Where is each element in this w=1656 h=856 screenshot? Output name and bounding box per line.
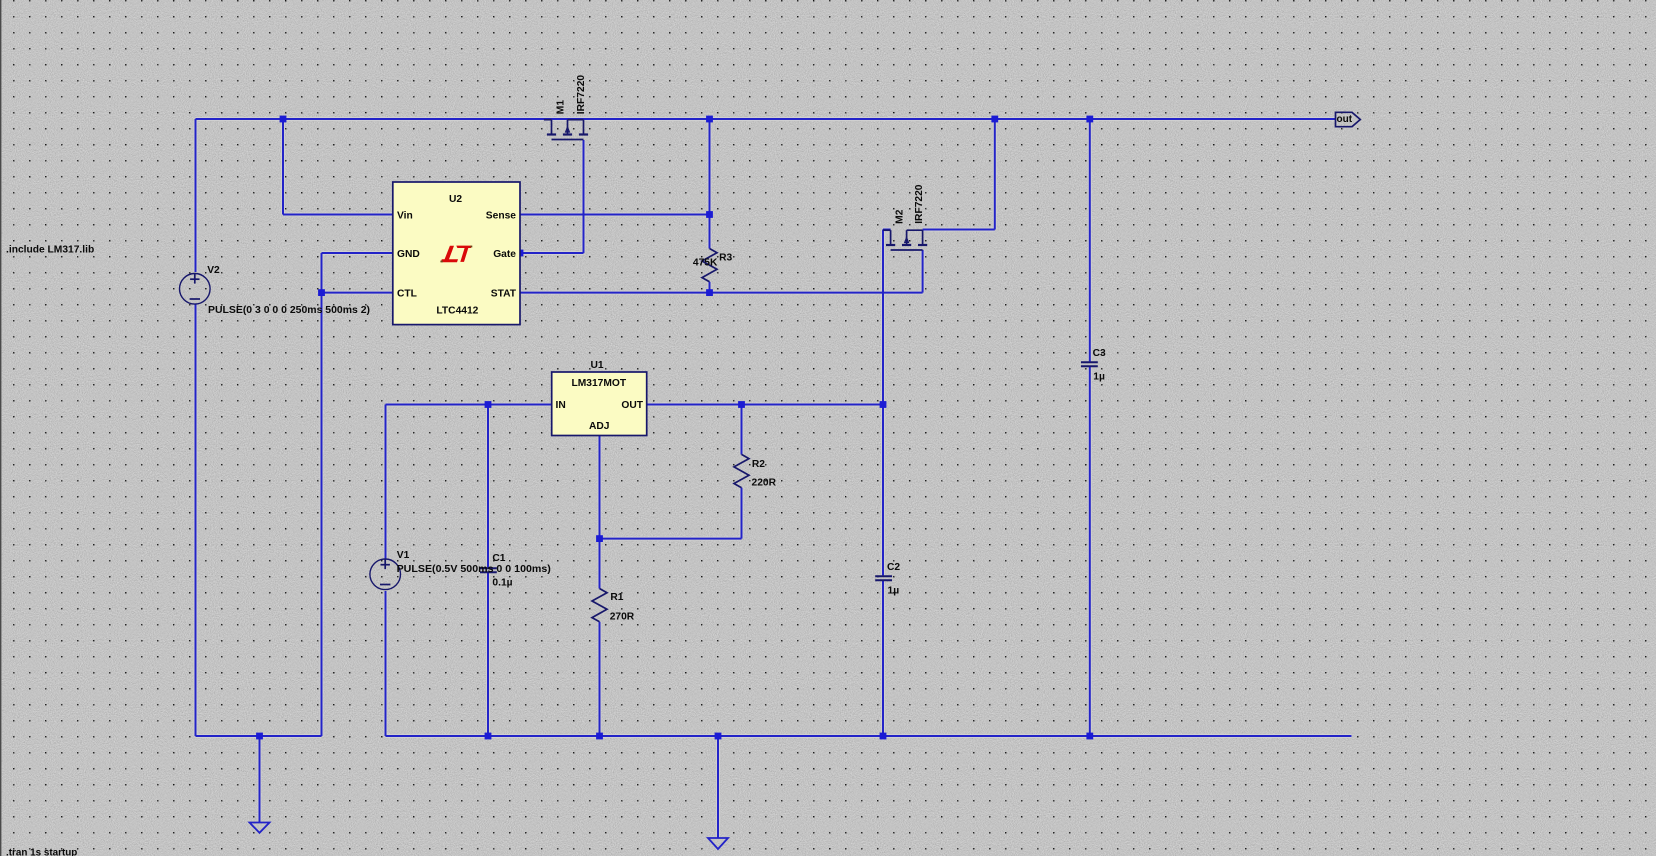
- svg-text:CTL: CTL: [397, 288, 417, 299]
- svg-text:Sense: Sense: [486, 211, 516, 222]
- svg-text:IN: IN: [556, 400, 566, 411]
- svg-text:ADJ: ADJ: [589, 421, 610, 432]
- svg-text:PULSE(0.5V 500ms 0 0 100ms): PULSE(0.5V 500ms 0 0 100ms): [397, 564, 551, 575]
- svg-text:Vin: Vin: [397, 211, 413, 222]
- svg-text:IRF7220: IRF7220: [914, 184, 925, 224]
- svg-text:.tran 1s startup: .tran 1s startup: [6, 847, 77, 856]
- svg-text:.include LM317.lib: .include LM317.lib: [6, 245, 94, 256]
- svg-text:OUT: OUT: [621, 400, 643, 411]
- svg-text:R3: R3: [719, 252, 732, 263]
- svg-text:U2: U2: [449, 194, 462, 205]
- svg-text:1µ: 1µ: [888, 586, 900, 597]
- svg-text:C3: C3: [1093, 348, 1106, 359]
- svg-text:STAT: STAT: [491, 288, 517, 299]
- svg-text:V2: V2: [207, 265, 220, 276]
- svg-text:270R: 270R: [610, 612, 635, 623]
- svg-text:LM317MOT: LM317MOT: [571, 378, 626, 389]
- svg-text:M2: M2: [895, 209, 906, 224]
- svg-text:Gate: Gate: [493, 249, 516, 260]
- svg-text:220R: 220R: [752, 478, 777, 489]
- svg-text:1µ: 1µ: [1093, 372, 1105, 383]
- svg-text:475K: 475K: [693, 258, 718, 269]
- svg-text:V1: V1: [397, 550, 410, 561]
- svg-text:PULSE(0 3 0 0 0 250ms 500ms 2): PULSE(0 3 0 0 0 250ms 500ms 2): [208, 305, 370, 316]
- svg-text:GND: GND: [397, 249, 420, 260]
- svg-text:0.1µ: 0.1µ: [492, 578, 512, 589]
- svg-text:C1: C1: [492, 553, 505, 564]
- svg-text:U1: U1: [591, 360, 604, 371]
- svg-text:M1: M1: [555, 100, 566, 115]
- svg-text:out: out: [1337, 114, 1353, 125]
- svg-text:IRF7220: IRF7220: [576, 75, 587, 115]
- svg-text:C2: C2: [887, 562, 900, 573]
- svg-text:R2: R2: [752, 459, 765, 470]
- svg-text:LTC4412: LTC4412: [436, 306, 478, 317]
- svg-text:R1: R1: [610, 592, 623, 603]
